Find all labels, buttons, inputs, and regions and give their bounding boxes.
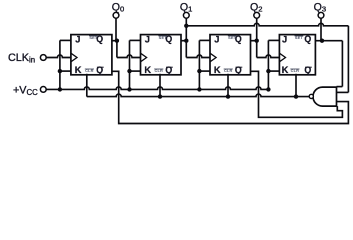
wire +Vcc rail xyxy=(46,87,268,89)
JK flip-flop U3 box xyxy=(210,35,251,75)
svg-text:Q: Q xyxy=(304,65,311,75)
flip-flop U3 pin label J xyxy=(214,34,219,44)
NAND gate U5 output bubble xyxy=(309,94,313,98)
wire Q0 riser xyxy=(115,18,118,57)
junction K tie U4 xyxy=(266,69,270,73)
flip-flop U2 pin label Q-bar xyxy=(165,65,172,75)
svg-text:K: K xyxy=(282,65,289,75)
wire Q3 to gate xyxy=(322,41,342,87)
flip-flop U3 pin label K xyxy=(214,65,221,75)
svg-text:J: J xyxy=(145,34,150,44)
wire K input U2 xyxy=(130,70,141,72)
svg-text:J: J xyxy=(214,34,219,44)
flip-flop U3 pin label Q-bar xyxy=(235,65,242,75)
flip-flop U1 pin label Q xyxy=(96,34,103,44)
flip-flop U3 pin label Q xyxy=(235,34,242,44)
svg-text:Q: Q xyxy=(96,65,103,75)
NAND gate U5 xyxy=(313,87,337,106)
wire Q3 riser xyxy=(320,18,322,41)
wire J-K tie vertical U1 xyxy=(59,40,61,89)
flip-flop U2 CLR label xyxy=(154,68,163,73)
terminal CLKin xyxy=(40,55,46,61)
svg-text:Q: Q xyxy=(235,65,242,75)
flip-flop U1 CLR label xyxy=(85,68,94,73)
svg-text:K: K xyxy=(144,65,151,75)
junction Q2 xyxy=(255,39,259,43)
junction Vcc tie U3 xyxy=(197,87,201,91)
junction K tie U2 xyxy=(127,69,131,73)
JK flip-flop U2 box xyxy=(141,35,182,75)
node Q1 label xyxy=(180,1,192,13)
wire Q0 to U2 clock xyxy=(117,55,141,58)
junction Vcc tie U1 xyxy=(58,87,62,91)
JK flip-flop U1 box xyxy=(71,35,112,75)
junction Q1 top feedback xyxy=(184,24,188,28)
node +Vcc label xyxy=(13,84,38,97)
wire CLR rail xyxy=(87,94,309,97)
node Q0 label xyxy=(112,1,124,13)
wire Q1 feedback right riser xyxy=(347,26,349,93)
terminal Q2 xyxy=(254,12,260,18)
wire Q2 riser xyxy=(256,18,258,57)
junction Vcc tie U4 xyxy=(266,87,270,91)
flip-flop U2 SET label xyxy=(158,35,167,40)
junction CLR rail U4 xyxy=(294,94,298,98)
flip-flop U3 CLR label xyxy=(224,68,233,73)
wire Q0-bar feedback to gate xyxy=(112,71,349,123)
wire Q2-bar feedback to gate xyxy=(251,71,343,117)
wire CLKin to U1 clock xyxy=(46,55,71,58)
wire J input U3 xyxy=(199,39,210,41)
wire gate input pin 2 jog xyxy=(337,91,349,93)
flip-flop U4 pin label K xyxy=(282,65,289,75)
svg-text:Q: Q xyxy=(304,34,311,44)
wire J input U2 xyxy=(130,39,141,41)
svg-text:K: K xyxy=(75,65,82,75)
flip-flop U4 CLR label xyxy=(290,68,299,73)
flip-flop U4 pin label J xyxy=(282,34,287,44)
wire J-K tie vertical U4 xyxy=(267,40,269,89)
wire CLR pin stub U3 xyxy=(227,74,229,97)
wire J-K tie vertical U3 xyxy=(198,40,200,89)
node Q2 label xyxy=(250,1,262,13)
junction K tie U1 xyxy=(58,69,62,73)
wire CLR pin stub U4 xyxy=(295,74,297,97)
junction K tie U3 xyxy=(197,69,201,73)
terminal Q1 xyxy=(183,12,189,18)
wire J input U1 xyxy=(60,39,71,41)
wire J-K tie vertical U2 xyxy=(129,40,131,89)
terminal +Vcc xyxy=(40,87,46,93)
svg-text:Q: Q xyxy=(165,65,172,75)
wire Q output U1 xyxy=(112,40,117,42)
flip-flop U1 pin label Q-bar xyxy=(96,65,103,75)
flip-flop U2 pin label K xyxy=(144,65,151,75)
junction Vcc tie U2 xyxy=(127,87,131,91)
flip-flop U1 pin label K xyxy=(75,65,82,75)
flip-flop U4 pin label Q xyxy=(304,34,311,44)
wire Q output U3 xyxy=(251,40,257,42)
junction CLR rail U2 xyxy=(158,94,162,98)
junction Q3 xyxy=(320,39,324,43)
flip-flop U4 pin label Q-bar xyxy=(304,65,311,75)
flip-flop U2 pin label J xyxy=(145,34,150,44)
flip-flop U4 SET label xyxy=(295,35,304,40)
flip-flop U3 SET label xyxy=(228,35,237,40)
svg-text:K: K xyxy=(214,65,221,75)
wire Q2 to U4 clock xyxy=(257,55,280,58)
flip-flop U1 pin label J xyxy=(75,34,80,44)
node CLKin label xyxy=(8,52,35,65)
node Q3 label xyxy=(314,1,326,13)
wire K input U3 xyxy=(199,70,210,72)
wire gate input pin 1 jog xyxy=(337,86,343,88)
svg-text:J: J xyxy=(282,34,287,44)
wire K input U1 xyxy=(60,70,71,72)
wire J input U4 xyxy=(268,39,279,41)
flip-flop U2 pin label Q xyxy=(165,34,172,44)
wire Q output U4 xyxy=(315,40,322,42)
terminal Q3 xyxy=(318,12,324,18)
flip-flop U1 SET label xyxy=(89,35,98,40)
terminal Q0 xyxy=(113,12,119,18)
wire Q output U2 xyxy=(181,40,186,42)
wire Q1 to U3 clock xyxy=(186,55,210,58)
wire Q1 riser xyxy=(185,18,187,57)
wire K input U4 xyxy=(268,70,279,72)
wire CLR pin stub U1 xyxy=(86,74,88,97)
junction CLR rail U3 xyxy=(226,94,230,98)
junction Q1 xyxy=(184,39,188,43)
svg-text:J: J xyxy=(75,34,80,44)
wire Q1 top feedback xyxy=(186,23,348,26)
wire CLR pin stub U2 xyxy=(159,74,161,97)
junction Q0 xyxy=(115,39,119,43)
JK flip-flop U4 box xyxy=(279,35,315,75)
